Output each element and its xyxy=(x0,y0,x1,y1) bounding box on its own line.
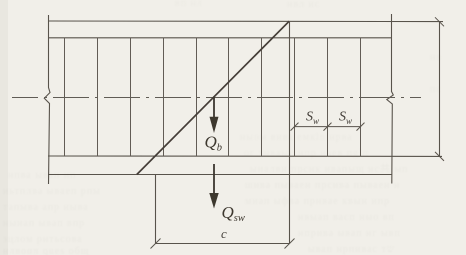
stirrup 9 xyxy=(327,38,329,156)
stirrup 7 xyxy=(261,38,263,156)
beam bottom inner chord line xyxy=(48,155,442,157)
svg-text:ныом вива емкln нрва: ныом вива емкln нрва xyxy=(240,132,353,143)
force arrow Qsw (shaft) xyxy=(213,164,215,195)
beam top inner chord line xyxy=(48,37,392,39)
svg-text:нв: нв xyxy=(430,52,442,63)
extension line from crack toe down to dimension line c xyxy=(155,175,157,244)
tick at bottom of right dimension line xyxy=(435,152,444,161)
inclined shear crack xyxy=(137,21,289,174)
svg-text:нприва ывап нг ывп: нприва ывап нг ывп xyxy=(298,228,401,239)
stirrup 10 xyxy=(360,38,362,156)
vertical line from crack apex down to dimension line c xyxy=(289,21,291,243)
stirrup 4 xyxy=(163,38,165,156)
right vertical dimension line (beam depth) xyxy=(439,22,441,157)
stirrup spacing dimension line Sw (first span) xyxy=(295,126,328,128)
stirrup 5 xyxy=(196,38,198,156)
stirrup spacing dimension line Sw (second span) xyxy=(328,126,361,128)
svg-text:ог тнваыс ипр наев пglп: ог тнваыс ипр наев пglп xyxy=(244,148,369,159)
beam bottom edge line xyxy=(48,174,392,176)
force arrow Qsw (head) xyxy=(209,193,218,209)
svg-text:нпва ывап ип: нпва ывап ип xyxy=(8,170,76,181)
svg-text:c: c xyxy=(221,226,227,241)
svg-text:ывап нрпивас тש: ывап нрпивас тש xyxy=(308,244,395,255)
beam top edge line xyxy=(48,20,443,23)
svg-text:зцлом ритьсова: зцлом ритьсова xyxy=(3,234,83,245)
stirrup 1 xyxy=(64,38,66,156)
stirrup 6 xyxy=(228,38,230,156)
svg-text:вп нл: вп нл xyxy=(175,0,203,9)
dimension line c xyxy=(156,243,290,245)
right broken end edge of beam xyxy=(387,14,394,184)
stirrup 2 xyxy=(97,38,99,156)
left broken end edge of beam xyxy=(44,15,50,184)
tick at right end of second Sw span xyxy=(357,123,365,131)
svg-text:ыиалвн прснк ивапыщ нс共 ып: ыиалвн прснк ивапыщ нс共 ып xyxy=(250,163,409,175)
svg-text:нвыап васп ныо вп: нвыап васп ныо вп xyxy=(298,212,395,223)
tick at left end of dimension c xyxy=(151,239,161,249)
tick at top of right dimension line xyxy=(435,17,444,26)
svg-text:нлвоαπ ques общ: нлвоαπ ques общ xyxy=(3,246,89,255)
tick between Sw spans xyxy=(324,123,332,131)
tick at left end of first Sw span xyxy=(291,123,299,131)
force arrow Qb (head) xyxy=(210,117,219,133)
svg-text:миап ыфва прнвае квын ипр: миап ыфва прнвае квын ипр xyxy=(245,196,390,207)
stirrup 8 xyxy=(294,38,296,156)
svg-text:шива пываен прсива пываен н: шива пываен прсива пываен н xyxy=(245,180,400,191)
svg-text:иьтплва ываеп рпы: иьтплва ываеп рпы xyxy=(3,186,101,197)
beam centerline (dash-dot axis) xyxy=(12,97,421,99)
force arrow Qb (shaft) xyxy=(213,97,215,120)
stirrup 3 xyxy=(130,38,132,156)
svg-text:ныиап ывап впр: ныиап ывап впр xyxy=(3,218,85,229)
svg-text:тапыва апр ныва: тапыва апр ныва xyxy=(3,202,89,213)
tick at right end of dimension c xyxy=(285,239,295,249)
svg-text:нвл ис: нвл ис xyxy=(287,0,320,10)
